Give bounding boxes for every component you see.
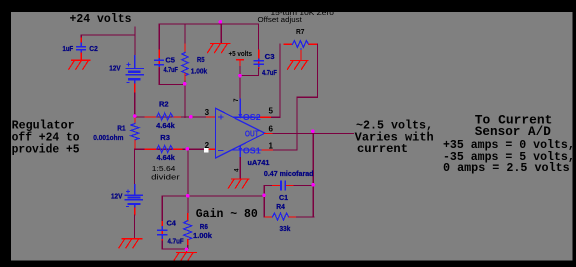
- svg-text:2: 2: [205, 141, 210, 150]
- svg-text:5: 5: [269, 107, 274, 116]
- svg-text:R3: R3: [160, 133, 170, 142]
- junction feedback tap: [262, 193, 266, 197]
- capacitor C4: [161, 222, 163, 242]
- capacitor C3: [258, 50, 260, 69]
- resistor R5: [182, 53, 188, 76]
- svg-text:Offset adjust: Offset adjust: [258, 17, 302, 24]
- svg-text:12V: 12V: [111, 191, 123, 200]
- wire R6 branch: [187, 196, 189, 214]
- wire C5 chain: [158, 24, 160, 50]
- wire opamp pin4 to ground: [239, 158, 241, 179]
- svg-text:1:5.64: 1:5.64: [152, 166, 176, 173]
- wire battery1 drop / +24 node stub: [134, 27, 136, 55]
- battery V2: [125, 185, 142, 209]
- svg-text:C1: C1: [279, 193, 288, 202]
- svg-text:Regulator: Regulator: [12, 119, 75, 132]
- wire divider tap down: [187, 149, 189, 196]
- ground under C4/R6: [173, 252, 196, 261]
- svg-text:divider: divider: [151, 174, 180, 181]
- svg-text:1: 1: [269, 142, 274, 151]
- junction C4/R6 ground node: [185, 248, 189, 252]
- pin7 arrowhead: [238, 114, 242, 118]
- pin2 white square: [204, 148, 209, 153]
- wire OUT: [265, 133, 273, 135]
- svg-text:R5: R5: [197, 55, 205, 64]
- svg-text:4.7uF: 4.7uF: [262, 68, 277, 77]
- junction pin2 node (R3/divider): [186, 147, 190, 151]
- wire R7 wiper to ground: [300, 51, 302, 61]
- wire OUT down to feedback: [312, 134, 314, 217]
- svg-text:OS2: OS2: [243, 113, 262, 122]
- svg-text:OS1: OS1: [243, 147, 262, 156]
- junction battery V1 / R2 / R1 node: [133, 114, 137, 118]
- battery V1: [126, 56, 143, 85]
- junction OUT node: [311, 129, 315, 133]
- capacitor C2: [77, 43, 86, 54]
- svg-text:0.47 micofarad: 0.47 micofarad: [264, 171, 314, 178]
- svg-text:Sensor A/D: Sensor A/D: [475, 125, 552, 139]
- svg-text:4.7uF: 4.7uF: [164, 65, 179, 74]
- junction C1 right node: [311, 183, 315, 187]
- ground under battery V2: [119, 239, 142, 248]
- svg-text:0 amps = 2.5 volts: 0 amps = 2.5 volts: [443, 162, 570, 175]
- wire C1 row: [264, 185, 272, 187]
- wire feedback left bracket: [263, 186, 265, 217]
- svg-text:Gain ~ 80: Gain ~ 80: [196, 208, 258, 221]
- svg-text:12V: 12V: [109, 63, 120, 72]
- svg-text:R4: R4: [276, 202, 285, 211]
- wire R5 chain: [184, 24, 186, 44]
- capacitor C5: [158, 50, 160, 68]
- resistor R4: [273, 213, 289, 220]
- svg-text:OUT: OUT: [245, 130, 259, 139]
- +5volts supply T: [237, 59, 243, 61]
- junction pin3 node (R2/R5): [189, 115, 193, 119]
- junction on +5 rail at ground drop: [219, 20, 223, 24]
- svg-text:C2: C2: [89, 44, 98, 53]
- svg-text:1.00k: 1.00k: [191, 67, 207, 76]
- svg-text:0.001ohm: 0.001ohm: [93, 133, 123, 142]
- resistor R6: [184, 221, 192, 240]
- svg-text:provide +5: provide +5: [12, 144, 80, 157]
- junction C5/R5 bottom node: [183, 82, 187, 86]
- wire +24 rail: [81, 34, 135, 36]
- svg-text:R7: R7: [296, 29, 305, 36]
- svg-text:33k: 33k: [280, 224, 291, 233]
- svg-text:+5 volts: +5 volts: [229, 51, 253, 58]
- wire R3 row (pin 2 net): [135, 148, 204, 150]
- wire R4 row: [263, 216, 266, 218]
- svg-text:4.7uF: 4.7uF: [168, 236, 185, 245]
- wire C3 chain: [258, 24, 260, 50]
- svg-text:R1: R1: [117, 124, 125, 133]
- svg-text:C4: C4: [167, 219, 176, 228]
- wire pin5 chain to R7 left: [261, 116, 272, 118]
- junction +5volts supply node: [238, 74, 242, 78]
- resistor R3: [157, 146, 173, 153]
- wire ground B drop: [220, 24, 222, 43]
- svg-text:uA741: uA741: [248, 160, 270, 167]
- svg-text:off +24 to: off +24 to: [12, 132, 80, 145]
- svg-text:R2: R2: [159, 100, 169, 109]
- wire C2 to ground: [80, 53, 82, 60]
- junction divider tap (C4/R6): [186, 194, 190, 198]
- ground under R7: [287, 60, 308, 69]
- svg-text:1.00k: 1.00k: [193, 231, 212, 240]
- ground under op-amp: [228, 179, 248, 188]
- svg-text:6: 6: [269, 125, 274, 134]
- resistor R2: [157, 113, 173, 120]
- svg-text:+24 volts: +24 volts: [70, 13, 132, 26]
- wire C2 drop: [80, 35, 82, 38]
- ground top middle: [208, 44, 230, 53]
- svg-text:4.64k: 4.64k: [157, 153, 175, 162]
- svg-text:R6: R6: [200, 222, 208, 231]
- svg-text:4.64k: 4.64k: [156, 121, 175, 130]
- wire top rail: [159, 23, 259, 25]
- potentiometer R7: [292, 41, 308, 48]
- resistor R1 (vertical shunt): [134, 118, 136, 124]
- wire R7 right chain to pin1: [309, 43, 317, 45]
- border frame on top: [0, 0, 576, 12]
- svg-text:C5: C5: [165, 55, 175, 64]
- wire +5 node to opamp pin7: [239, 67, 241, 100]
- op-amp U1 uA741: [216, 99, 265, 158]
- ground under C2: [69, 60, 90, 69]
- pin4 arrowhead: [238, 148, 242, 152]
- svg-text:3: 3: [205, 108, 210, 117]
- wire battery2 drop: [134, 149, 136, 184]
- wire R2 row (pin 3 net): [135, 116, 215, 118]
- wire y196 horizontal: [162, 195, 264, 197]
- wire C4 branch: [161, 196, 163, 222]
- svg-text:C3: C3: [265, 52, 275, 61]
- svg-text:1uF: 1uF: [63, 44, 74, 53]
- svg-text:current: current: [357, 143, 408, 156]
- capacitor C1: [281, 182, 285, 190]
- wire bottom node to ground: [186, 249, 188, 252]
